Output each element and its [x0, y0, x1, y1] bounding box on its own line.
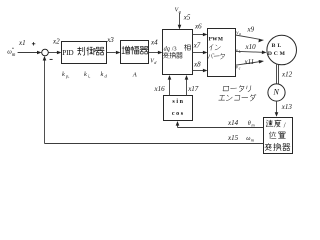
speed/position text line3: [265, 143, 290, 150]
wire x15 omega_m feedback line: [43, 56, 264, 144]
wire x5 Vq input into converter top: [178, 13, 182, 30]
wire x11 phase c to motor: [236, 60, 265, 65]
svg-text:x4: x4: [150, 38, 158, 46]
svg-text:x5: x5: [183, 14, 191, 22]
svg-text:x12: x12: [281, 70, 293, 78]
motor BL DCM circle: [267, 35, 297, 65]
rotary encoder caption line1: [223, 85, 251, 91]
svg-text:x11: x11: [244, 58, 255, 66]
svg-text:k: k: [84, 71, 87, 78]
wire x2 summing junction to PID controller: [48, 51, 61, 55]
svg-text:k: k: [62, 71, 65, 78]
encoder circle N: [268, 84, 285, 101]
rotary encoder caption line2: [219, 94, 257, 101]
PID controller box: [62, 42, 107, 64]
amplifier box: [121, 41, 149, 64]
speed/position converter box: [264, 118, 293, 154]
svg-text:x3: x3: [106, 36, 114, 44]
svg-text:θ: θ: [248, 121, 251, 127]
svg-text:dq: dq: [164, 45, 170, 52]
svg-text:/3: /3: [172, 45, 177, 52]
wire x3 PID to amplifier: [107, 51, 121, 55]
svg-text:x15: x15: [227, 134, 239, 142]
svg-text:x13: x13: [281, 103, 293, 111]
PWM inverter box: [208, 29, 236, 77]
svg-text:x10: x10: [245, 43, 257, 51]
svg-text:DCM: DCM: [268, 51, 287, 57]
svg-text:PWM: PWM: [209, 36, 224, 42]
wire x4 amplifier to dq/3-phase converter: [149, 51, 163, 55]
svg-text:x17: x17: [187, 85, 199, 93]
wire x14 theta_m line to sin/cos box: [176, 121, 264, 128]
svg-text:sin: sin: [172, 99, 184, 105]
sin cos converter box: [164, 96, 193, 121]
svg-text:x14: x14: [227, 119, 239, 127]
wire x9 phase a to motor: [236, 35, 265, 42]
svg-text:x7: x7: [193, 42, 201, 50]
wire x7 converter to PWM inverter: [193, 51, 208, 55]
dq/3-phase converter box: [163, 30, 193, 75]
wire x8 converter to PWM inverter: [193, 69, 208, 73]
svg-text:x1: x1: [18, 39, 26, 47]
wire x17 cos output to converter: [185, 75, 189, 96]
svg-text:A: A: [132, 72, 137, 79]
svg-text:N: N: [273, 88, 280, 97]
svg-text:cos: cos: [172, 111, 185, 117]
summing junction: [42, 49, 49, 56]
speed/position text line2: [269, 132, 285, 139]
node plus sign: [32, 42, 35, 45]
wire shaft double line motor to encoder: [277, 64, 279, 84]
svg-text:PID: PID: [62, 48, 73, 57]
svg-text:k: k: [101, 71, 104, 78]
wire x13 encoder to speed/position converter: [275, 101, 279, 117]
svg-text:x2: x2: [52, 38, 60, 46]
wire x6 converter to PWM inverter: [193, 33, 208, 37]
speed/position text line1: [266, 120, 281, 127]
node minus sign: [50, 58, 53, 60]
svg-text:x8: x8: [193, 60, 201, 68]
svg-text:b: b: [239, 50, 241, 54]
amplifier text: [122, 46, 148, 54]
node omega*_m reference input label: [7, 47, 16, 58]
svg-text:m: m: [12, 53, 16, 58]
wire x1 input arrow to summing junction: [18, 51, 42, 55]
svg-text:x9: x9: [247, 26, 255, 34]
svg-text:x16: x16: [154, 85, 166, 93]
wire x16 sin output to converter: [168, 75, 172, 96]
svg-text:BL: BL: [272, 43, 284, 49]
converter text line2: [163, 52, 182, 58]
svg-text:x6: x6: [194, 23, 202, 31]
wire x10 phase b to motor: [236, 51, 267, 55]
